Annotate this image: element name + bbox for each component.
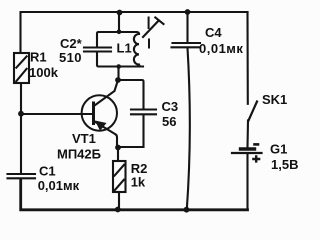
svg-text:C4: C4: [205, 25, 222, 40]
svg-text:МП42Б: МП42Б: [57, 147, 101, 162]
svg-text:1k: 1k: [131, 175, 146, 190]
svg-text:1,5В: 1,5В: [271, 157, 298, 172]
svg-text:0,01мк: 0,01мк: [199, 41, 243, 56]
svg-text:SK1: SK1: [262, 92, 287, 107]
svg-text:C2*: C2*: [60, 36, 83, 51]
svg-text:VT1: VT1: [72, 131, 96, 146]
svg-text:C3: C3: [162, 99, 179, 114]
svg-text:100k: 100k: [29, 65, 59, 80]
svg-text:0,01мк: 0,01мк: [38, 178, 80, 193]
svg-text:56: 56: [162, 114, 176, 129]
svg-text:510: 510: [59, 50, 82, 65]
svg-text:R1: R1: [30, 50, 47, 65]
svg-text:G1: G1: [270, 142, 287, 157]
svg-text:C1: C1: [39, 164, 56, 179]
svg-text:L1: L1: [117, 41, 132, 56]
